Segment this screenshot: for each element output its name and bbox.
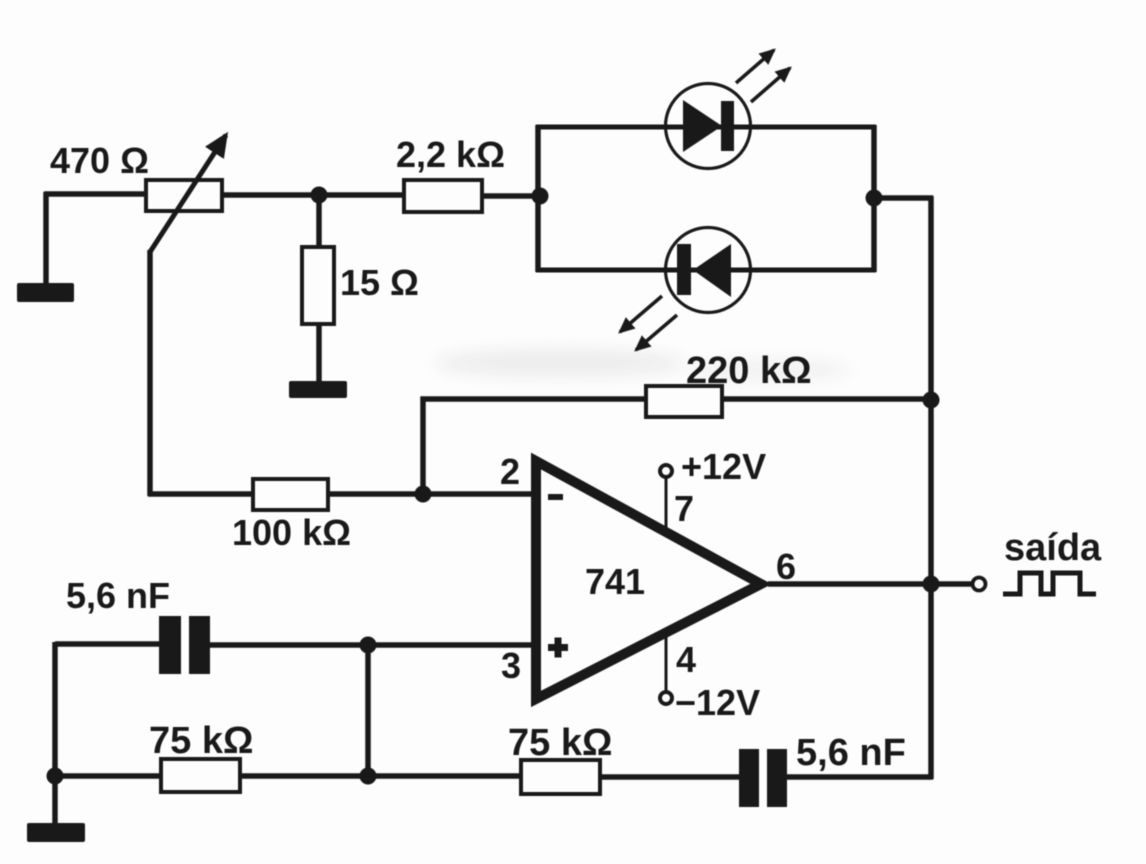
capacitor C2 right plate (767, 749, 787, 807)
output terminal circle (973, 578, 986, 591)
resistor 75k left body (161, 759, 240, 792)
faint scan smudge (435, 349, 850, 380)
LED D2 light arrow 2 (636, 315, 677, 350)
LED D2 circle (666, 228, 751, 313)
svg-text:6: 6 (776, 546, 796, 587)
junction node bus/220k (923, 392, 940, 409)
wire 2.2k to LED branch (480, 193, 541, 199)
wire top-left horizontal (44, 191, 148, 197)
capacitor C1 left plate (159, 616, 181, 674)
wire 75k right to C2 (598, 774, 742, 780)
svg-text:220 kΩ: 220 kΩ (686, 350, 812, 392)
svg-text:−12V: −12V (675, 682, 760, 723)
LED D2 light arrow 1 (620, 296, 662, 332)
wire LED loop right vertical (871, 125, 877, 272)
svg-text:+12V: +12V (681, 446, 766, 487)
pin 4 lead (665, 633, 668, 692)
ground symbol under 15 ohm (289, 381, 347, 398)
svg-text:4: 4 (676, 639, 696, 680)
op-amp plus sign (548, 644, 568, 651)
wire bottom-left vertical (52, 642, 58, 825)
resistor 100k body (253, 479, 328, 510)
op-amp U1 741 triangle (536, 461, 761, 699)
resistor 15 ohm body (302, 247, 334, 324)
wire LED top through (536, 125, 876, 130)
pin 7 lead (665, 477, 668, 531)
wire 75k left to 75k right (238, 773, 523, 779)
resistor 220k body (646, 386, 722, 417)
LED D1 light arrow 1 (736, 50, 774, 83)
junction node pin3/C1 (360, 637, 377, 654)
wire LED bottom through (536, 268, 876, 273)
junction node ground/75k (47, 768, 64, 785)
svg-text:3: 3 (501, 645, 521, 686)
svg-text:5,6 nF: 5,6 nF (796, 732, 906, 774)
LED D2 cathode bar (677, 244, 691, 295)
junction node 75k/vertical (360, 768, 377, 785)
resistor 2.2k body (404, 180, 482, 212)
capacitor C1 right plate (189, 616, 210, 674)
wire LED loop left vertical (535, 125, 541, 272)
svg-text:75 kΩ: 75 kΩ (149, 720, 253, 762)
svg-text:470 Ω: 470 Ω (50, 140, 149, 181)
wire C1 to pin 3 (208, 642, 534, 648)
potentiometer arrow (150, 135, 226, 252)
pin 7 terminal circle (660, 465, 672, 477)
LED D1 cathode bar (721, 101, 734, 151)
wire 100k to pin 2 (326, 491, 534, 497)
wire C1 left lead (55, 641, 161, 647)
ground symbol left (17, 283, 74, 302)
wire C2 to right bus (785, 774, 933, 780)
ground symbol bottom-left (27, 823, 85, 842)
op-amp minus sign (548, 494, 563, 500)
wire junction vertical pin3 net (365, 645, 371, 778)
wire feedback left with corner (423, 399, 648, 496)
wire 100k left lead (148, 491, 255, 497)
LED D1 circle (666, 84, 751, 169)
junction node 2.2k/LED left (532, 188, 549, 205)
svg-text:2: 2 (500, 451, 520, 492)
junction node bus/output (923, 576, 940, 593)
square wave symbol (1003, 573, 1096, 594)
svg-text:5,6 nF: 5,6 nF (66, 575, 170, 616)
wire pot wiper vertical (147, 250, 153, 496)
LED D1 light arrow 2 (751, 68, 790, 102)
svg-text:2,2 kΩ: 2,2 kΩ (396, 134, 505, 175)
junction node LED right (866, 190, 883, 207)
wire left vertical to ground (43, 192, 49, 286)
potentiometer P1 body 470 ohm (146, 180, 222, 211)
capacitor C2 left plate (739, 749, 759, 807)
svg-text:741: 741 (585, 561, 645, 602)
wire 220k right lead (721, 396, 931, 402)
wire ground to 75k left (55, 773, 163, 779)
junction node pot/15ohm (311, 187, 328, 204)
wire 15ohm top lead (316, 195, 322, 250)
svg-text:saída: saída (1004, 527, 1102, 569)
svg-text:7: 7 (674, 488, 694, 529)
wire LED node to right bus (872, 195, 933, 201)
junction node pin2/100k/220k (415, 486, 432, 503)
wire output pin 6 (768, 581, 972, 587)
resistor 75k right body (521, 760, 600, 794)
wire 15ohm bottom lead (316, 322, 322, 384)
svg-text:100 kΩ: 100 kΩ (232, 512, 351, 553)
wire right bus vertical (928, 196, 934, 779)
svg-text:75 kΩ: 75 kΩ (508, 722, 612, 764)
pin 4 terminal circle (660, 692, 672, 704)
wire pot right to 2.2k (220, 192, 406, 198)
LED D2 diode triangle (693, 244, 731, 297)
svg-text:15 Ω: 15 Ω (340, 262, 419, 303)
LED D1 diode triangle (683, 100, 722, 152)
